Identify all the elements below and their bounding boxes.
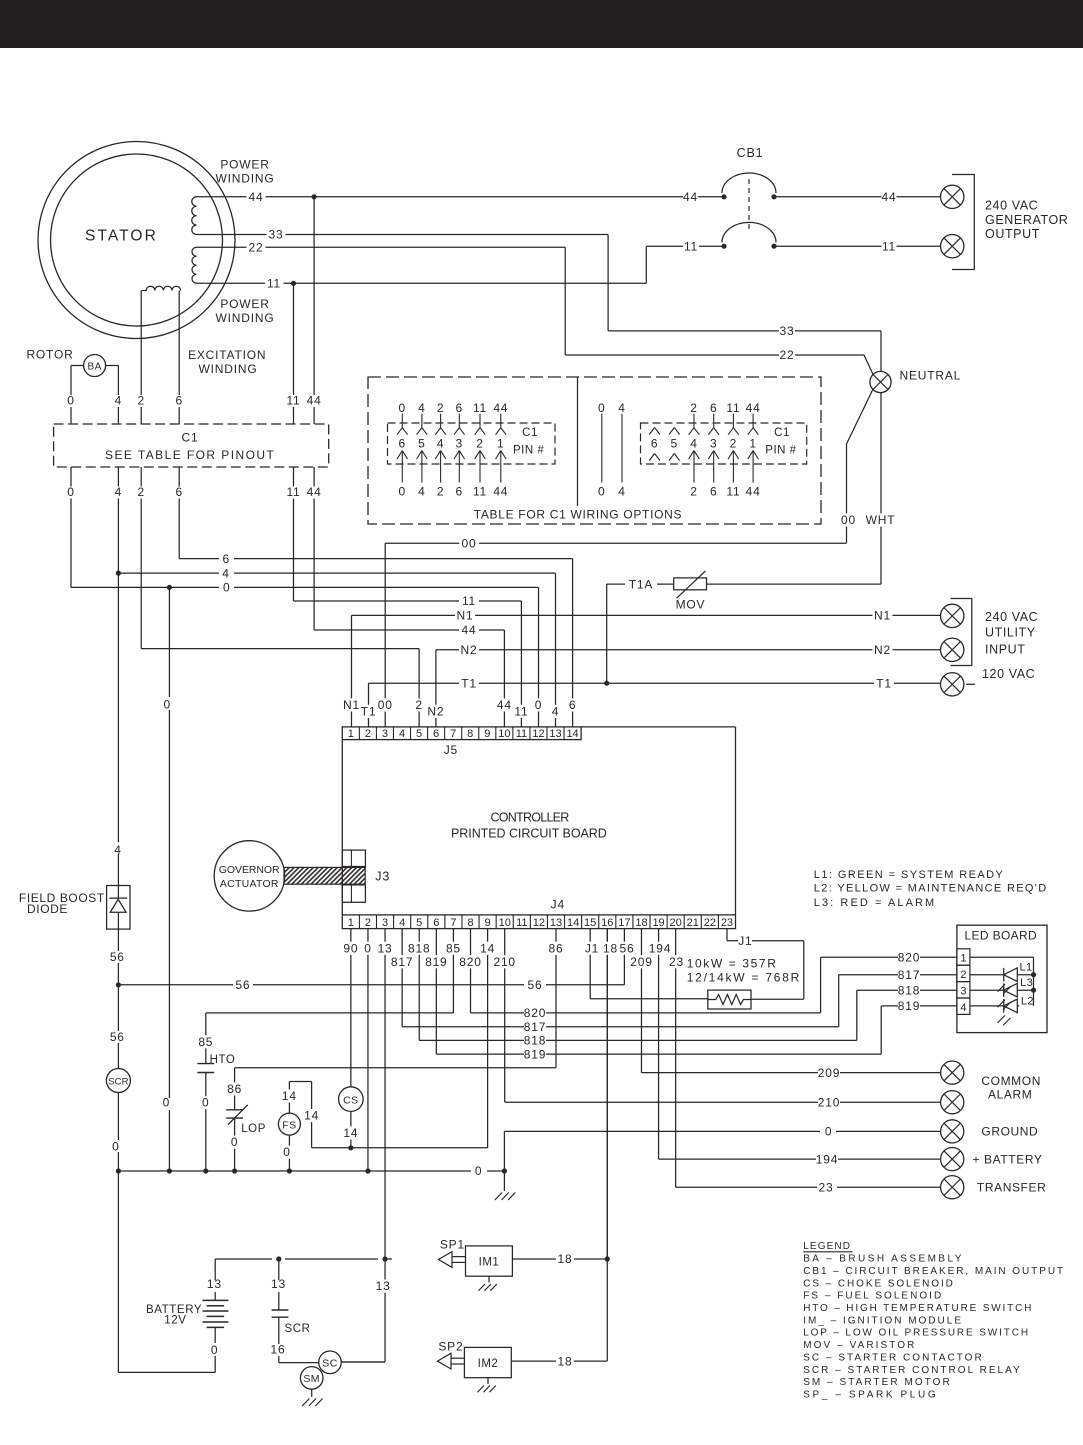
svg-text:11: 11	[684, 239, 698, 253]
junction 56 at field boost	[116, 982, 121, 987]
svg-text:210: 210	[493, 955, 515, 969]
svg-text:44: 44	[746, 485, 761, 499]
wire BA left to C1 pin 0	[71, 365, 84, 367]
generator output bracket	[952, 175, 974, 270]
svg-text:44: 44	[746, 401, 761, 415]
svg-text:44: 44	[493, 401, 508, 415]
svg-text:POWER: POWER	[220, 297, 269, 311]
svg-text:SCR: SCR	[285, 1323, 311, 1335]
connector J3 upper	[342, 850, 365, 866]
svg-text:13: 13	[207, 1277, 222, 1291]
svg-text:13: 13	[376, 1279, 391, 1293]
utility input bracket	[951, 599, 972, 666]
svg-text:11: 11	[726, 485, 740, 499]
junction 14 net	[348, 1145, 353, 1150]
svg-text:4: 4	[418, 485, 425, 499]
svg-text:3: 3	[960, 985, 966, 997]
svg-text:210: 210	[818, 1095, 840, 1109]
svg-text:LOP: LOP	[241, 1123, 266, 1135]
svg-text:3: 3	[710, 437, 717, 451]
svg-text:T1: T1	[461, 676, 477, 690]
connector J5	[342, 727, 581, 740]
circuit breaker CB1 pole 2	[721, 244, 726, 249]
svg-text:CS: CS	[343, 1094, 358, 1106]
svg-text:2: 2	[476, 437, 483, 451]
wire 13 J4-3 to battery net	[384, 929, 386, 1259]
svg-text:22: 22	[704, 917, 716, 929]
table right inner dashed box (C1 pins)	[641, 423, 807, 464]
wire 209 J4-18 to common alarm lamp	[640, 929, 642, 1073]
svg-text:14: 14	[567, 917, 579, 929]
wire 820 J4-8 to LED board 1	[470, 929, 472, 1013]
svg-text:23: 23	[721, 917, 733, 929]
wire 14 J4-9 to FS/CS	[487, 929, 489, 1148]
svg-text:4: 4	[618, 401, 625, 415]
svg-text:820: 820	[459, 955, 481, 969]
svg-text:12V: 12V	[164, 1314, 186, 1326]
battery 12V	[203, 1299, 229, 1301]
svg-text:WHT: WHT	[866, 513, 896, 527]
wire 0 from C1 to J5-12	[70, 499, 72, 588]
junction 0 drop	[167, 585, 172, 590]
svg-text:818: 818	[898, 983, 920, 997]
svg-text:4: 4	[960, 1002, 966, 1014]
ignition module IM1	[466, 1246, 513, 1276]
controller PCB outline	[341, 740, 343, 915]
svg-text:BA – BRUSH ASSEMBLY: BA – BRUSH ASSEMBLY	[803, 1254, 962, 1265]
LED L3 (red)	[970, 989, 1004, 991]
svg-text:00: 00	[462, 536, 477, 550]
svg-text:WINDING: WINDING	[216, 311, 275, 325]
svg-text:C1: C1	[182, 431, 199, 445]
svg-text:L1: L1	[1019, 962, 1032, 974]
svg-text:6: 6	[175, 485, 182, 499]
svg-text:GROUND: GROUND	[981, 1125, 1038, 1139]
svg-text:HTO – HIGH TEMPERATURE SWI: HTO – HIGH TEMPERATURE SWITCH	[803, 1303, 1032, 1314]
svg-text:56: 56	[528, 978, 543, 992]
svg-text:0: 0	[67, 394, 74, 408]
svg-text:OUTPUT: OUTPUT	[985, 227, 1040, 241]
svg-text:N2: N2	[427, 704, 444, 718]
wire 44 from C1 to J5-10	[313, 499, 315, 631]
svg-text:2: 2	[960, 969, 966, 981]
label 194 (pin)	[647, 942, 673, 955]
header black bar	[0, 0, 1083, 48]
svg-text:13: 13	[271, 1277, 286, 1291]
svg-text:0: 0	[825, 1125, 832, 1139]
svg-text:SP1: SP1	[440, 1238, 465, 1252]
svg-text:4: 4	[399, 728, 405, 740]
svg-text:44: 44	[493, 485, 508, 499]
wire 18 IM1	[512, 1258, 556, 1260]
wire N2 utility to J5-6	[435, 650, 437, 727]
wire 33 from stator to neutral	[197, 234, 267, 236]
svg-text:2: 2	[415, 698, 422, 712]
ground symbol (main)	[495, 1193, 502, 1201]
wire 56 J4-17 to field boost / SCR	[623, 929, 625, 985]
lamp 240VAC generator output (11)	[941, 235, 964, 258]
svg-text:22: 22	[249, 241, 264, 255]
wire LOP to 0 bus	[234, 1118, 236, 1171]
wire 86 J4-13 to LOP	[555, 929, 557, 1068]
svg-text:COMMON: COMMON	[981, 1074, 1041, 1088]
wire 00 white from neutral to J5-3	[847, 390, 873, 445]
wire 11 riser to CB1 level	[645, 246, 647, 283]
svg-text:ROTOR: ROTOR	[26, 348, 73, 362]
C1 pin stubs below box	[70, 467, 72, 487]
governor actuator	[214, 841, 284, 911]
svg-text:14: 14	[566, 728, 578, 740]
svg-text:15: 15	[584, 917, 596, 929]
wire 11 into CB1	[699, 245, 724, 247]
ground symbol (SM)	[302, 1399, 309, 1407]
svg-text:20: 20	[670, 917, 682, 929]
svg-text:2: 2	[137, 394, 144, 408]
varistor MOV T1A branch	[606, 584, 608, 683]
junction LOP on bus	[232, 1168, 237, 1173]
svg-text:11: 11	[514, 704, 528, 718]
wire 18 to IM2	[606, 1259, 608, 1361]
svg-text:44: 44	[249, 190, 264, 204]
label 820 (pin)	[457, 955, 485, 968]
svg-text:19: 19	[652, 917, 664, 929]
wire 13 down to SC	[384, 1259, 386, 1362]
junction SCR contact branch	[276, 1256, 281, 1261]
label 23 (pin)	[667, 955, 687, 968]
ground symbol (IM1)	[479, 1284, 485, 1291]
svg-text:16: 16	[601, 917, 613, 929]
svg-text:21: 21	[687, 917, 699, 929]
wire BA right to C1 pin 4	[106, 365, 119, 367]
svg-text:SP2: SP2	[438, 1339, 463, 1353]
LED L1 (green)	[970, 974, 1004, 976]
label 210 (pin)	[492, 955, 518, 968]
svg-text:INPUT: INPUT	[985, 642, 1026, 656]
svg-text:820: 820	[898, 950, 920, 964]
svg-text:0: 0	[202, 1096, 209, 1110]
junction HTO on bus	[203, 1168, 208, 1173]
connector C1 box (dashed)	[54, 424, 329, 467]
svg-text:817: 817	[391, 955, 413, 969]
junction bus left end	[116, 1168, 121, 1173]
svg-text:J1: J1	[738, 934, 752, 948]
svg-text:8: 8	[467, 917, 473, 929]
svg-text:23: 23	[819, 1180, 834, 1194]
svg-text:14: 14	[304, 1109, 319, 1123]
svg-text:N1: N1	[343, 698, 360, 712]
wire 0 drop to bus	[168, 587, 170, 697]
svg-text:56: 56	[620, 941, 635, 955]
wire 0 ground lamp to bus	[836, 1130, 941, 1132]
wire bus to battery negative	[117, 1171, 119, 1372]
svg-text:44: 44	[882, 190, 897, 204]
junction J4-2 on bus	[365, 1168, 370, 1173]
lamp ground 0	[941, 1120, 964, 1143]
svg-text:J5: J5	[444, 743, 458, 757]
svg-text:DIODE: DIODE	[27, 902, 68, 916]
svg-text:7: 7	[450, 917, 456, 929]
svg-text:12/14kW = 768R: 12/14kW = 768R	[687, 971, 800, 985]
label 56 (pin)	[617, 942, 637, 955]
choke solenoid CS	[339, 1087, 364, 1112]
svg-text:BA: BA	[88, 362, 102, 373]
excitation winding coil	[141, 286, 180, 290]
svg-text:SEE TABLE FOR PINOUT: SEE TABLE FOR PINOUT	[105, 448, 275, 462]
svg-text:6: 6	[433, 728, 439, 740]
svg-text:CONTROLLER: CONTROLLER	[491, 811, 571, 825]
svg-text:11: 11	[473, 401, 487, 415]
label 14 (CS)	[342, 1126, 360, 1139]
svg-text:0: 0	[598, 485, 605, 499]
svg-text:PIN #: PIN #	[765, 445, 796, 457]
IM2 ground wire	[487, 1378, 489, 1384]
svg-text:2: 2	[137, 485, 144, 499]
svg-text:UTILITY: UTILITY	[985, 625, 1036, 639]
svg-text:FS – FUEL SOLENOID: FS – FUEL SOLENOID	[803, 1291, 942, 1302]
svg-text:C1: C1	[774, 427, 790, 439]
svg-text:9: 9	[484, 728, 490, 740]
wire 6 from C1 to J5-14	[178, 499, 180, 559]
svg-text:2: 2	[365, 728, 371, 740]
svg-text:HTO: HTO	[210, 1054, 236, 1066]
svg-text:817: 817	[898, 968, 920, 982]
stator outer circle	[38, 142, 235, 339]
wire 4 to field boost diode	[117, 573, 119, 842]
wire 2 from C1 to J5-5	[140, 499, 142, 649]
lamp 240VAC generator output (44)	[941, 185, 964, 208]
svg-text:L1: GREEN = SYSTEM READY: L1: GREEN = SYSTEM READY	[814, 869, 1004, 881]
svg-text:4: 4	[618, 485, 625, 499]
svg-text:44: 44	[307, 485, 322, 499]
svg-text:4: 4	[222, 566, 229, 580]
svg-text:9: 9	[485, 917, 491, 929]
svg-text:6: 6	[175, 394, 182, 408]
svg-text:L3: RED = ALARM: L3: RED = ALARM	[814, 897, 935, 909]
svg-text:13: 13	[549, 728, 561, 740]
svg-text:00: 00	[378, 698, 393, 712]
svg-text:ALARM: ALARM	[988, 1088, 1032, 1102]
junction LED L3	[1031, 988, 1036, 993]
svg-text:10: 10	[498, 728, 510, 740]
svg-text:11: 11	[462, 594, 476, 608]
svg-text:2: 2	[730, 437, 737, 451]
svg-text:EXCITATION: EXCITATION	[188, 348, 266, 362]
svg-text:0: 0	[163, 1096, 170, 1110]
svg-text:194: 194	[649, 941, 671, 955]
svg-text:0: 0	[598, 401, 605, 415]
table right columns (pins 6..1)	[649, 428, 654, 435]
resistor J1	[708, 990, 751, 1009]
svg-text:4: 4	[552, 704, 559, 718]
svg-text:CS – CHOKE SOLENOID: CS – CHOKE SOLENOID	[803, 1278, 953, 1289]
svg-text:SM – STARTER MOTOR: SM – STARTER MOTOR	[803, 1377, 950, 1388]
label 13 (SC branch)	[374, 1280, 392, 1293]
svg-text:11: 11	[267, 277, 281, 291]
svg-text:820: 820	[524, 1006, 546, 1020]
svg-text:33: 33	[269, 228, 284, 242]
svg-text:0: 0	[283, 1145, 290, 1159]
wire HTO to 0 bus	[205, 1073, 207, 1172]
IM1 ground wire	[488, 1276, 490, 1282]
svg-text:18: 18	[558, 1252, 573, 1266]
starter motor SM	[300, 1367, 323, 1390]
wire 11 from CB1 to output lamp	[774, 245, 882, 247]
svg-text:819: 819	[524, 1047, 546, 1061]
table divider	[577, 378, 579, 507]
svg-text:44: 44	[497, 698, 512, 712]
svg-text:14: 14	[282, 1089, 297, 1103]
wire excitation to C1 pin 2	[140, 291, 142, 396]
starter control relay coil SCR	[106, 1069, 130, 1093]
ground symbol (IM2)	[478, 1386, 484, 1393]
svg-text:T1A: T1A	[629, 577, 653, 591]
starter contactor SC	[319, 1351, 342, 1374]
svg-text:TRANSFER: TRANSFER	[977, 1180, 1046, 1194]
svg-text:2: 2	[437, 485, 444, 499]
wire 4 from C1 to J5-13	[117, 499, 119, 574]
svg-text:11: 11	[882, 239, 896, 253]
svg-text:6: 6	[222, 552, 229, 566]
svg-text:44: 44	[462, 623, 477, 637]
spark plug SP2 arrow	[438, 1353, 452, 1369]
svg-text:817: 817	[524, 1020, 546, 1034]
svg-text:+ BATTERY: + BATTERY	[973, 1152, 1043, 1166]
SCR contact branch	[278, 1259, 280, 1280]
svg-text:4: 4	[114, 843, 121, 857]
power winding coil top (44-33)	[192, 197, 197, 235]
svg-text:4: 4	[437, 437, 444, 451]
svg-text:3: 3	[382, 917, 388, 929]
svg-text:N2: N2	[461, 643, 478, 657]
lamp common alarm 209	[941, 1061, 964, 1084]
label 18 (pin)	[602, 942, 620, 955]
wire 44 from stator to CB1	[197, 196, 247, 198]
wire CS to 14 net	[350, 1111, 352, 1147]
svg-text:5: 5	[416, 917, 422, 929]
svg-text:0: 0	[223, 581, 230, 595]
svg-text:2: 2	[365, 917, 371, 929]
LED board box	[957, 925, 1047, 1032]
svg-text:TABLE FOR C1 WIRING OPTIONS: TABLE FOR C1 WIRING OPTIONS	[474, 508, 683, 522]
label 817 (pin)	[389, 955, 415, 968]
SM ground wire	[311, 1389, 313, 1397]
wire WHT from neutral to MOV	[880, 393, 882, 584]
junction ground on bus	[502, 1168, 507, 1173]
svg-text:4: 4	[115, 394, 122, 408]
svg-text:818: 818	[524, 1034, 546, 1048]
wire 44 to C1	[313, 197, 315, 395]
svg-text:LOP – LOW OIL PRESSURE SW: LOP – LOW OIL PRESSURE SWITCH	[803, 1328, 1028, 1339]
neutral terminal lamp	[870, 371, 891, 392]
svg-text:85: 85	[198, 1035, 213, 1049]
junction 13 net	[382, 1256, 387, 1261]
power winding coil bottom (22-11)	[192, 247, 197, 283]
wire 13 battery positive	[214, 1292, 216, 1300]
wire 18 J4-16 to ignition modules	[606, 929, 608, 1259]
svg-text:00: 00	[841, 513, 856, 527]
svg-text:MOV: MOV	[676, 598, 706, 612]
svg-text:86: 86	[549, 941, 564, 955]
wire 0 battery negative	[214, 1327, 216, 1343]
svg-text:IM1: IM1	[479, 1256, 500, 1268]
lamp N2 utility	[941, 638, 964, 661]
svg-text:209: 209	[630, 955, 652, 969]
label 0 (HTO)	[200, 1096, 211, 1109]
svg-text:0: 0	[535, 698, 542, 712]
svg-text:0: 0	[399, 401, 406, 415]
junction T1/MOV	[604, 681, 609, 686]
svg-text:POWER: POWER	[220, 158, 269, 172]
svg-text:J1: J1	[585, 941, 599, 955]
svg-text:ACTUATOR: ACTUATOR	[220, 878, 279, 890]
svg-text:N1: N1	[874, 609, 891, 623]
svg-text:LEGEND: LEGEND	[803, 1241, 851, 1252]
svg-text:120 VAC: 120 VAC	[982, 667, 1035, 681]
junction 4 / field boost	[116, 571, 121, 576]
svg-text:T1: T1	[876, 676, 892, 690]
svg-text:16: 16	[271, 1342, 286, 1356]
LED board connector cells	[957, 949, 970, 965]
svg-text:4: 4	[418, 401, 425, 415]
svg-text:4: 4	[690, 437, 697, 451]
wire 22 from stator to neutral	[197, 246, 247, 248]
governor actuator shaft (hatched)	[284, 867, 365, 884]
svg-text:2: 2	[690, 485, 697, 499]
junction 11 to C1	[291, 281, 296, 286]
svg-text:2: 2	[690, 401, 697, 415]
field boost diode	[107, 886, 130, 930]
svg-text:6: 6	[456, 401, 463, 415]
wire SCR to 0 bus	[117, 1093, 119, 1141]
LED common wire 820	[970, 956, 1034, 958]
junction 18 net	[605, 1256, 610, 1261]
label 85 (HTO)	[196, 1035, 216, 1048]
lamp common alarm 210	[941, 1091, 964, 1114]
svg-text:22: 22	[780, 348, 795, 362]
svg-text:0: 0	[475, 1164, 482, 1178]
svg-text:L2: L2	[1021, 995, 1034, 1007]
svg-text:11: 11	[286, 394, 300, 408]
svg-text:MOV – VARISTOR: MOV – VARISTOR	[803, 1340, 915, 1351]
svg-text:14: 14	[480, 941, 495, 955]
svg-text:12: 12	[533, 917, 545, 929]
CB1 mechanical link (dashed)	[748, 179, 750, 230]
wire 44 from CB1 to output lamp	[774, 196, 882, 198]
starter control relay contact	[272, 1309, 289, 1311]
label WHT	[865, 513, 896, 526]
wire 210 J4-10 to common alarm lamp	[504, 929, 506, 1103]
svg-text:0: 0	[364, 941, 371, 955]
varistor MOV symbol	[674, 578, 707, 590]
svg-text:1: 1	[348, 917, 354, 929]
wire 56 diode to SCR	[117, 929, 119, 951]
svg-text:18: 18	[603, 941, 618, 955]
svg-text:0: 0	[112, 1139, 119, 1153]
label J1 (pin)	[583, 942, 601, 955]
lamp transfer 23	[941, 1176, 964, 1199]
svg-text:GENERATOR: GENERATOR	[985, 213, 1068, 227]
label 0 (J4-2)	[362, 942, 373, 955]
wire 818 J4-5 to LED board 3	[418, 929, 420, 1041]
svg-text:6: 6	[710, 485, 717, 499]
wire 23 J4-20 to transfer lamp	[675, 929, 677, 1188]
label 86 (pin)	[546, 942, 566, 955]
connector J4	[342, 915, 735, 929]
wire 11 from C1 to J5-11	[293, 499, 295, 602]
svg-text:11: 11	[516, 728, 527, 740]
svg-text:10: 10	[499, 917, 511, 929]
svg-text:7: 7	[450, 728, 456, 740]
